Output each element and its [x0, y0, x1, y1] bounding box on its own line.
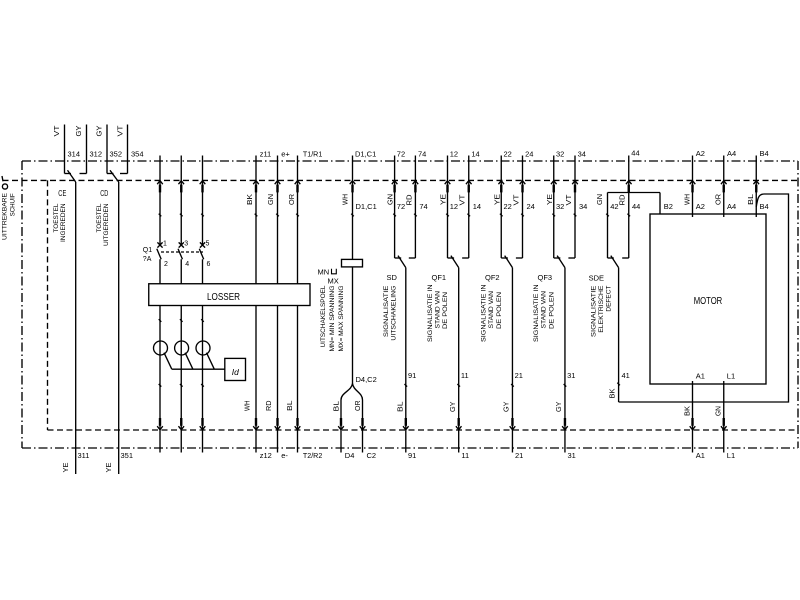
wire 42 (to B2) [608, 193, 614, 259]
label 31 terminal [567, 371, 575, 380]
svg-text:SCHUIF: SCHUIF [10, 193, 17, 216]
label T1/R1 [303, 149, 322, 158]
description SD [383, 285, 398, 340]
wire 11 stub [458, 430, 460, 453]
breaker Q1 pole 1 moving contact [157, 249, 161, 259]
label 24 mid [527, 202, 535, 211]
description QF3 [533, 285, 555, 343]
svg-text:2: 2 [164, 261, 168, 268]
label 42 mid [610, 202, 618, 211]
terminal tick 21 [511, 384, 514, 387]
svg-text:RD: RD [266, 401, 273, 412]
wire 72 [395, 156, 402, 259]
terminal tick [500, 214, 503, 217]
label RD wire 44 [619, 195, 626, 206]
label UITSCHAKELSPOEL [320, 285, 345, 352]
svg-text:14: 14 [471, 149, 479, 158]
label C2 [367, 451, 377, 460]
label TOESTEL INGEREDEN [53, 203, 67, 242]
drawer plug contact z11 [253, 181, 259, 193]
svg-text:QF3: QF3 [538, 273, 553, 282]
svg-text:31: 31 [568, 451, 576, 460]
svg-text:B2: B2 [664, 202, 673, 211]
svg-text:YE: YE [106, 462, 113, 472]
label SDE [589, 273, 604, 282]
label 22 mid [503, 202, 511, 211]
drawer plug contact D4 [338, 418, 344, 430]
label 352 [110, 149, 123, 158]
label 74 top [418, 149, 426, 158]
label GN [268, 194, 275, 205]
label YE wire 311 [63, 462, 70, 472]
svg-text:GY: GY [97, 125, 104, 136]
svg-text:UITSCHAKELING: UITSCHAKELING [390, 285, 397, 340]
phase wire L1 stub [159, 430, 161, 453]
svg-text:QF2: QF2 [485, 273, 500, 282]
svg-text:11: 11 [461, 451, 469, 460]
svg-text:INGEREDEN: INGEREDEN [60, 204, 67, 243]
svg-text:e+: e+ [281, 149, 290, 158]
label z11 [260, 149, 272, 158]
svg-text:OR: OR [355, 401, 362, 412]
label 44 mid [632, 202, 640, 211]
wire 31 [564, 268, 566, 430]
wire 314 [65, 125, 72, 174]
wire 31 stub [564, 430, 566, 453]
svg-text:5: 5 [206, 240, 210, 247]
wire D4 branch [341, 384, 353, 431]
svg-text:z11: z11 [260, 149, 272, 158]
wire 44 [622, 156, 629, 259]
current transformer CT2 [175, 341, 189, 355]
wire z12 stub [255, 430, 257, 453]
contact QF1 moving contact [451, 256, 459, 268]
label BL wire B4 [748, 194, 755, 205]
drawer plug contact D1,C1 [350, 181, 356, 193]
svg-text:VT: VT [460, 194, 467, 206]
drawer plug contact 24 [520, 181, 526, 193]
drawer plug contact phase L1 bottom [157, 418, 163, 430]
label e+ [281, 149, 290, 158]
label D1,C1 mid [356, 202, 377, 211]
contact SD moving contact [398, 256, 406, 268]
svg-text:T2/R2: T2/R2 [303, 451, 322, 460]
label QF3 [538, 273, 553, 282]
label 91 bottom [408, 451, 416, 460]
label MN [318, 267, 337, 276]
label 34 top [578, 149, 586, 158]
svg-text:3: 3 [184, 240, 188, 247]
breaker Q1 pole 3 moving contact [199, 249, 203, 259]
label 314 [68, 149, 81, 158]
drawer plug contact e- [275, 418, 281, 430]
svg-text:SDE: SDE [589, 273, 604, 282]
label WH wire D1,C1 [342, 194, 349, 205]
svg-text:DE POLEN: DE POLEN [548, 292, 555, 329]
svg-text:L1: L1 [727, 371, 735, 380]
terminal tick [467, 214, 470, 217]
label 11 terminal [461, 371, 469, 380]
svg-text:D1,C1: D1,C1 [356, 202, 377, 211]
svg-text:BL: BL [748, 194, 755, 205]
wire T2/R2 lower [297, 306, 299, 431]
label pin 3 [184, 240, 188, 247]
label BK [247, 194, 254, 205]
breaker Q1 pole 2 fixed contact x-mark [179, 242, 184, 247]
drawer plug contact 31 [562, 418, 568, 430]
drawer plug contact 12 [445, 181, 451, 193]
wire B4 to defect loop [619, 194, 789, 402]
terminal tick 91 [405, 384, 408, 387]
label GY wire 312 [76, 125, 83, 136]
terminal tick [446, 214, 449, 217]
label D4 [345, 451, 355, 460]
label YE wire 351 [106, 462, 113, 472]
svg-text:DE POLEN: DE POLEN [496, 292, 503, 329]
svg-text:31: 31 [567, 371, 575, 380]
wire T2/R2 stub [297, 430, 299, 453]
label Q1 [143, 247, 152, 254]
svg-text:STAND VAN: STAND VAN [541, 291, 548, 329]
junction tick phase L2 lower [180, 384, 183, 387]
label A1 terminal [696, 371, 705, 380]
svg-text:DE POLEN: DE POLEN [442, 292, 449, 329]
withdrawable contact symbol [2, 176, 8, 189]
svg-text:72: 72 [397, 202, 405, 211]
label pin 4 [185, 261, 189, 268]
svg-text:T1/R1: T1/R1 [303, 149, 322, 158]
wire 41 (defect chain) [618, 268, 620, 402]
svg-text:SIGNALISATIE IN: SIGNALISATIE IN [481, 285, 488, 343]
terminal tick [351, 214, 354, 217]
svg-text:GN: GN [597, 194, 604, 205]
label OR wire A4 [716, 194, 723, 205]
svg-text:41: 41 [622, 371, 630, 380]
label QF2 [485, 273, 500, 282]
svg-text:21: 21 [515, 371, 523, 380]
svg-text:TOESTEL: TOESTEL [53, 203, 60, 233]
phase wire L1 lower [159, 259, 161, 430]
contact SDE moving contact [611, 256, 619, 268]
label 21 terminal [515, 371, 523, 380]
junction tick phase L3 [201, 319, 204, 322]
drawer plug contact B4 [753, 181, 759, 193]
label WH wire A2 [684, 194, 691, 205]
svg-text:24: 24 [525, 149, 533, 158]
label 14 mid [473, 202, 481, 211]
label 31 bottom [568, 451, 576, 460]
svg-text:GN: GN [388, 194, 395, 205]
svg-text:11: 11 [461, 371, 469, 380]
terminal tick [276, 214, 279, 217]
svg-text:A1: A1 [696, 451, 705, 460]
description QF2 [481, 285, 503, 343]
svg-text:YE: YE [494, 194, 501, 205]
wire A1 stub [692, 430, 694, 453]
label QF1 [432, 273, 447, 282]
svg-text:BL: BL [287, 400, 294, 411]
label GY wire 11 [450, 401, 457, 412]
label 34 mid [579, 202, 587, 211]
wire L1 [723, 381, 725, 430]
terminal tick [393, 214, 396, 217]
wire A4 [723, 156, 725, 218]
phase wire L3 upper [202, 156, 204, 246]
label D4,C2 [356, 375, 377, 384]
terminal tick [159, 214, 162, 217]
terminal tick [552, 214, 555, 217]
wire 32 [554, 156, 561, 259]
label 32 top [556, 149, 564, 158]
junction tick phase L1 lower [159, 384, 162, 387]
svg-text:74: 74 [419, 202, 427, 211]
svg-text:SIGNALISATIE: SIGNALISATIE [383, 286, 390, 338]
wire e+ upper [277, 156, 279, 284]
label CE [58, 188, 66, 198]
label pin 6 [207, 261, 211, 268]
wire B2 link [608, 193, 661, 218]
svg-text:C2: C2 [367, 451, 377, 460]
svg-text:34: 34 [578, 149, 586, 158]
description QF1 [427, 285, 449, 343]
svg-text:A4: A4 [727, 202, 736, 211]
svg-text:YE: YE [547, 194, 554, 205]
svg-text:DEFECT: DEFECT [606, 285, 613, 311]
drawer plug contact A2 [690, 181, 696, 193]
wire 351 (CD) [118, 182, 120, 474]
terminal tick [574, 214, 577, 217]
label 44 top [631, 149, 639, 158]
label A4 mid [727, 202, 736, 211]
label YE wire 32 [547, 194, 554, 205]
enclosure boundary top (dash-dot) [22, 160, 798, 162]
svg-text:VT: VT [118, 125, 125, 137]
label ?A [143, 256, 152, 263]
label VT wire 34 [566, 194, 573, 206]
drawer plug contact 11 [456, 418, 462, 430]
svg-text:GY: GY [450, 401, 457, 412]
svg-text:352: 352 [110, 149, 123, 158]
svg-text:MN= MIN SPANNING: MN= MIN SPANNING [329, 285, 336, 351]
wire 22 [501, 156, 508, 259]
label 14 top [471, 149, 479, 158]
label CD [100, 188, 108, 198]
svg-text:6: 6 [207, 261, 211, 268]
wire 24 [516, 156, 523, 259]
label B2 [664, 202, 673, 211]
drawer plug contact 44 [626, 181, 632, 193]
breaker Q1 pole 1 fixed contact x-mark [157, 242, 162, 247]
svg-text:354: 354 [131, 149, 144, 158]
svg-text:STAND VAN: STAND VAN [488, 291, 495, 329]
junction tick phase L1 [159, 319, 162, 322]
svg-text:TOESTEL: TOESTEL [96, 203, 103, 233]
label GN wire 42 [597, 194, 604, 205]
phase wire L2 stub [180, 430, 182, 453]
wire 12 [448, 156, 455, 259]
label BL [287, 400, 294, 411]
drawer plug contact phase L2 top [178, 181, 184, 193]
wire L1 stub [723, 430, 725, 453]
drawer plug contact T1/R1 [295, 181, 301, 193]
svg-text:BL: BL [334, 401, 341, 412]
wire z11 upper [255, 156, 257, 284]
drawer plug contact phase L2 bottom [178, 418, 184, 430]
enclosure boundary left (dash-dot) [21, 161, 23, 448]
wire e- stub [277, 430, 279, 453]
label SD [387, 273, 398, 282]
label L1 bottom [727, 451, 735, 460]
wire 21 [511, 268, 513, 430]
svg-text:UITGEREDEN: UITGEREDEN [103, 204, 110, 247]
svg-text:22: 22 [503, 149, 511, 158]
wire C2 stub [362, 430, 364, 453]
wire 34 [568, 156, 575, 259]
label 21 bottom [515, 451, 523, 460]
wire e- lower [277, 306, 279, 431]
svg-text:GN: GN [268, 194, 275, 205]
svg-text:12: 12 [450, 202, 458, 211]
svg-text:312: 312 [90, 149, 103, 158]
label GY wire 31 [556, 401, 563, 412]
terminal tick [521, 214, 524, 217]
svg-text:32: 32 [556, 149, 564, 158]
label TOESTEL UITGEREDEN [96, 203, 110, 246]
motor M1 [650, 214, 766, 384]
drawer plug contact 91 [403, 418, 409, 430]
drawer plug contact 34 [572, 181, 578, 193]
svg-text:A4: A4 [727, 149, 736, 158]
label A1 bottom [696, 451, 705, 460]
label YE wire 22 [494, 194, 501, 205]
contact CD (drawer position, moving contact) [110, 170, 119, 182]
drawer plug contact A4 [721, 181, 727, 193]
label 91 terminal [408, 371, 416, 380]
svg-text:GN: GN [716, 406, 723, 416]
svg-text:VT: VT [54, 125, 61, 137]
label L1 terminal [727, 371, 735, 380]
CT2 secondary lead [185, 353, 193, 370]
drawer plug contact phase L1 top [157, 181, 163, 193]
wire 354 [120, 125, 128, 174]
label 72 top [397, 149, 405, 158]
phase wire L2 upper [180, 156, 182, 246]
label 12 mid [450, 202, 458, 211]
svg-text:MN: MN [318, 267, 330, 276]
svg-text:?A: ?A [143, 256, 152, 263]
drawer plug contact e+ [275, 181, 281, 193]
label T2/R2 [303, 451, 322, 460]
label RD [266, 401, 273, 412]
wire 91 stub [405, 430, 407, 453]
wire 352 [107, 125, 114, 174]
label VT wire 354 [118, 125, 125, 137]
phase wire L3 stub [202, 430, 204, 453]
svg-text:WH: WH [684, 194, 691, 205]
label 72 mid [397, 202, 405, 211]
svg-text:e-: e- [281, 451, 288, 460]
contact QF2 moving contact [505, 256, 513, 268]
svg-text:44: 44 [632, 202, 640, 211]
label WH [244, 401, 251, 412]
wire B4 [755, 156, 757, 218]
label GY wire 352 [97, 125, 104, 136]
svg-text:A2: A2 [696, 202, 705, 211]
label YE wire 12 [441, 194, 448, 205]
terminal tick [414, 214, 417, 217]
enclosure boundary right (dash-dot) [797, 161, 799, 448]
label 312 [90, 149, 103, 158]
phase wire L3 lower [202, 259, 204, 430]
svg-text:z12: z12 [260, 451, 272, 460]
svg-text:BK: BK [247, 194, 254, 205]
svg-text:VT: VT [566, 194, 573, 206]
drawer plug contact z12 [253, 418, 259, 430]
wire 311 (CE) [75, 182, 77, 474]
label B4 top [760, 149, 769, 158]
drawer plug contact 32 [551, 181, 557, 193]
label 22 top [503, 149, 511, 158]
label BL wire 91 [397, 401, 404, 412]
svg-text:MX= MAX SPANNING: MX= MAX SPANNING [338, 285, 345, 351]
label BL wire D4 [334, 401, 341, 412]
wire 74 [409, 156, 416, 259]
svg-text:311: 311 [78, 451, 90, 460]
label GN wire L1 [716, 406, 723, 416]
drawer plug contact 72 [392, 181, 398, 193]
svg-text:21: 21 [515, 451, 523, 460]
drawer plug contact T2/R2 [295, 418, 301, 430]
svg-text:D4: D4 [345, 451, 355, 460]
drawer plug contact A1 [690, 418, 696, 430]
svg-text:Q1: Q1 [143, 247, 152, 254]
terminal tick 41 [617, 383, 620, 386]
svg-text:91: 91 [408, 371, 416, 380]
svg-text:GY: GY [556, 401, 563, 412]
drawer plug contact 21 [510, 418, 516, 430]
svg-text:BL: BL [397, 401, 404, 412]
CT3 secondary lead [207, 353, 215, 370]
contact QF3 moving contact [557, 256, 565, 268]
label A4 top [727, 149, 736, 158]
wire 312 [80, 125, 87, 174]
svg-text:WH: WH [244, 401, 251, 412]
label VT wire 24 [513, 194, 520, 206]
label A2 top [696, 149, 705, 158]
wire A1 [692, 381, 694, 430]
label 354 [131, 149, 144, 158]
wire 91 [405, 268, 407, 430]
label BK wire 41 [610, 388, 617, 398]
label 311 [78, 451, 90, 460]
label VT wire 14 [460, 194, 467, 206]
svg-text:314: 314 [68, 149, 81, 158]
svg-text:CD: CD [100, 188, 108, 198]
svg-text:BK: BK [610, 388, 617, 398]
wire D1,C1 upper [352, 156, 354, 260]
label OR [289, 194, 296, 205]
drawer plug contact 74 [413, 181, 419, 193]
drawer boundary bottom (dashed) [48, 429, 798, 431]
svg-text:YE: YE [63, 462, 70, 472]
svg-text:4: 4 [185, 261, 189, 268]
current transformer CT3 [196, 341, 210, 355]
label e- [281, 451, 288, 460]
svg-text:GY: GY [504, 401, 511, 412]
label B4 mid [760, 202, 769, 211]
current transformer CT1 [154, 341, 168, 355]
svg-text:OR: OR [716, 194, 723, 205]
